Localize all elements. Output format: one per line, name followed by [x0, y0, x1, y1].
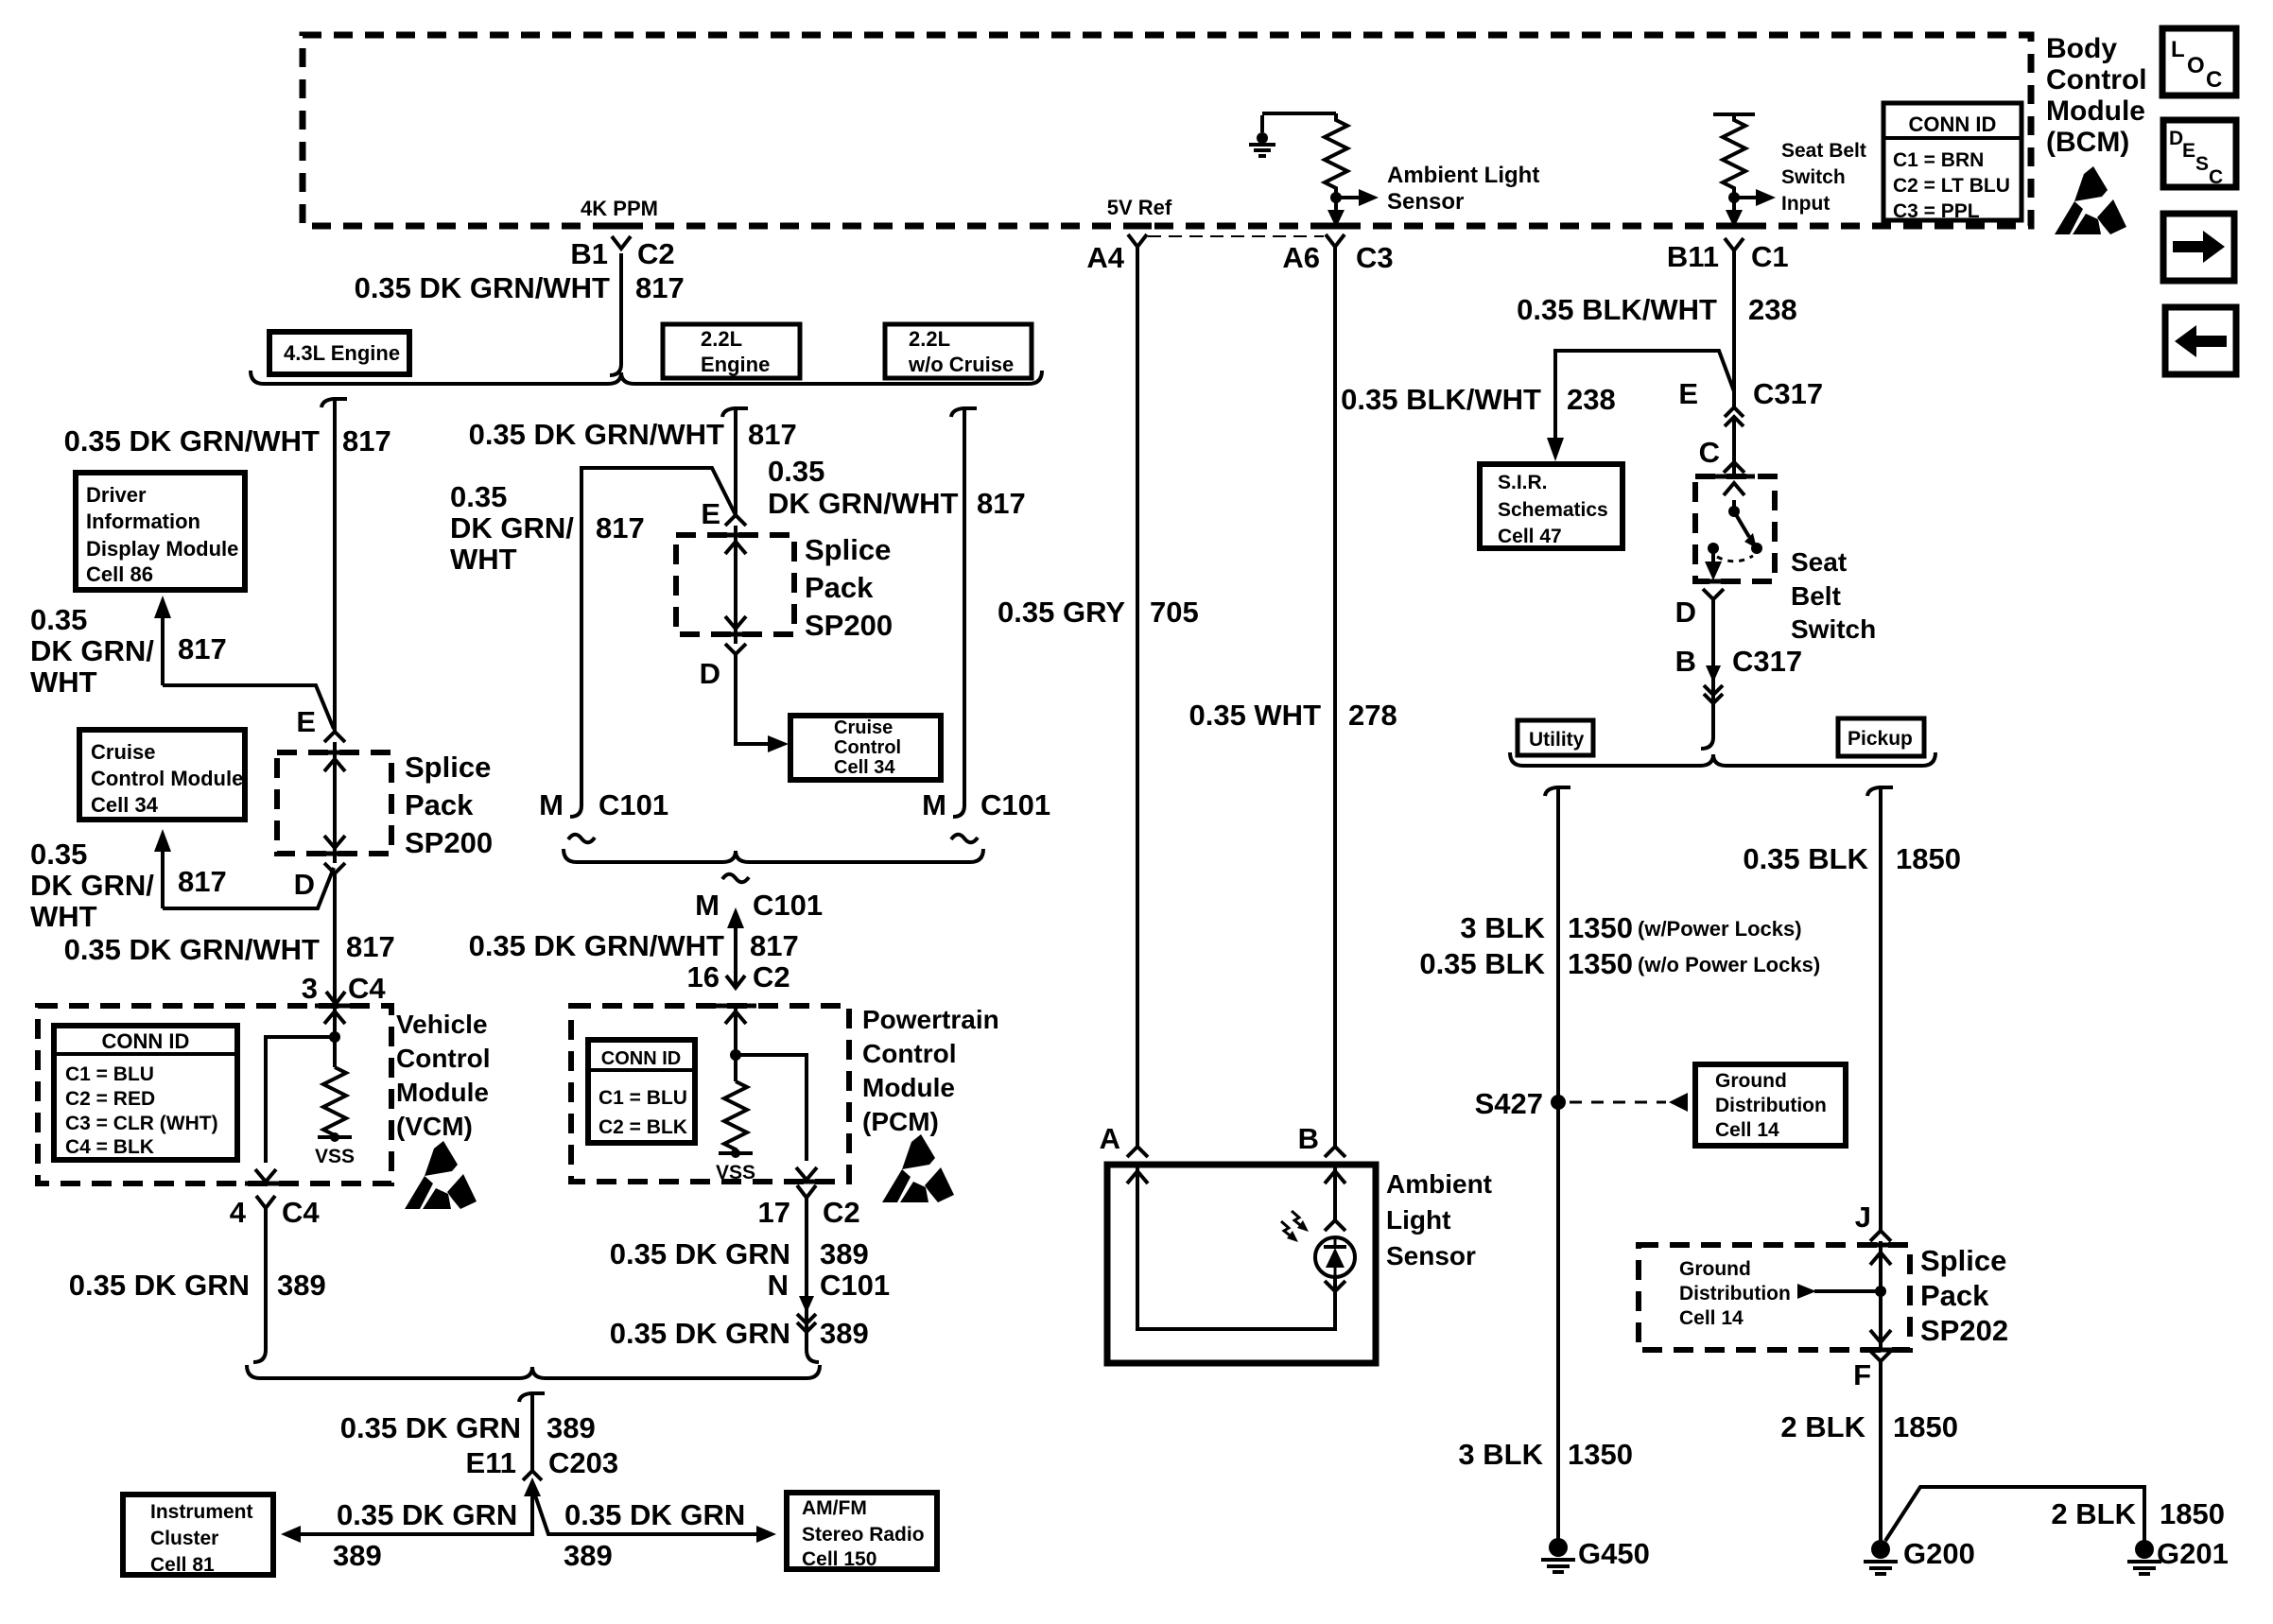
svg-text:G200: G200 [1903, 1537, 1975, 1570]
svg-text:0.35 DK GRN: 0.35 DK GRN [337, 1498, 517, 1531]
svg-text:2.2L: 2.2L [701, 327, 742, 351]
node S427 splice [1551, 1095, 1566, 1110]
wire 817 2.2L w/o Cruise hook [951, 408, 977, 417]
node junction inside PCM [730, 1049, 741, 1061]
connector pin A4 on BCM [1128, 234, 1147, 247]
table CONN ID (VCM) [54, 1026, 237, 1160]
svg-text:1350: 1350 [1568, 911, 1633, 944]
svg-text:SP200: SP200 [805, 609, 893, 642]
svg-text:J: J [1855, 1201, 1871, 1234]
svg-text:E: E [701, 497, 720, 530]
arrow Seat Belt Switch Input signal [1734, 196, 1756, 199]
svg-text:M: M [922, 788, 946, 821]
svg-text:D: D [294, 868, 315, 901]
svg-text:B: B [1675, 645, 1696, 678]
svg-text:Ambient: Ambient [1386, 1169, 1492, 1199]
arrow up inside SP200 [324, 759, 345, 771]
arrow down at switch pin D exit [1711, 552, 1715, 563]
svg-text:M: M [695, 889, 720, 922]
table CONN ID (BCM) [1883, 103, 2021, 220]
arrow up at VCM pin 3 entry [324, 1011, 345, 1024]
svg-text:0.35: 0.35 [450, 480, 507, 513]
svg-text:Cell 86: Cell 86 [86, 562, 153, 586]
arrow up at PCM pin 16 entry [725, 1011, 746, 1024]
svg-text:Module: Module [862, 1073, 955, 1102]
svg-text:1350: 1350 [1568, 1438, 1633, 1471]
svg-text:M: M [539, 788, 564, 821]
svg-text:C2: C2 [753, 960, 790, 993]
svg-text:Cruise: Cruise [834, 717, 893, 738]
svg-text:Vehicle: Vehicle [396, 1010, 488, 1039]
arrow up inside SP202 [1870, 1253, 1891, 1265]
connector pin E/C317 [1725, 407, 1744, 426]
wire to pin B11 with down arrow [1732, 198, 1736, 212]
switch SW1 Seat Belt Switch dashed box [1695, 476, 1775, 581]
wire 817 4.3L branch hook [321, 399, 347, 407]
net VSS (VCM) [318, 1135, 352, 1139]
module U3 Powertrain Control Module (PCM) dashed outline [571, 1006, 849, 1182]
arrow up inside SP200 (mid) [725, 542, 746, 554]
svg-text:A: A [1100, 1122, 1120, 1155]
connector M/C101 (left tilde) [568, 835, 595, 843]
brace engine application split [251, 371, 1042, 384]
svg-text:5V Ref: 5V Ref [1107, 196, 1172, 219]
svg-text:2.2L: 2.2L [909, 327, 950, 351]
svg-text:1850: 1850 [1896, 842, 1961, 875]
arrow up at sensor pin B [1325, 1171, 1345, 1183]
svg-text:C1 = BRN: C1 = BRN [1893, 149, 1984, 171]
ground G201 [2135, 1540, 2154, 1559]
svg-text:S: S [2195, 153, 2209, 175]
svg-text:389: 389 [564, 1539, 613, 1572]
svg-text:238: 238 [1748, 293, 1797, 326]
wire branch to Driver Information Display Module [163, 685, 334, 729]
svg-text:S427: S427 [1475, 1087, 1543, 1120]
tag box 2.2L w/o Cruise [885, 324, 1032, 378]
wire to pin A6 with down arrow [1334, 198, 1338, 212]
arrow up at sensor pin A [1127, 1171, 1148, 1183]
wire branch to S.I.R. Schematics [1555, 351, 1734, 440]
svg-text:(w/o Power Locks): (w/o Power Locks) [1638, 953, 1820, 976]
svg-text:817: 817 [342, 424, 391, 458]
svg-text:Seat Belt: Seat Belt [1781, 140, 1866, 162]
module box Cruise Control Cell 34 [790, 716, 941, 780]
wire 1850 Pickup hook [1867, 787, 1893, 796]
splice pack SP200 dashed box (mid) [676, 535, 794, 634]
svg-text:0.35 DK GRN: 0.35 DK GRN [564, 1498, 745, 1531]
svg-text:0.35 DK GRN: 0.35 DK GRN [610, 1317, 790, 1350]
connector N/C101 with arrow [799, 1296, 814, 1313]
svg-text:E: E [2182, 140, 2195, 162]
wire inside PCM [734, 1006, 737, 1081]
node junction inside VCM [329, 1031, 340, 1043]
svg-text:WHT: WHT [30, 900, 97, 933]
svg-text:Sensor: Sensor [1387, 189, 1464, 215]
svg-text:Cell 14: Cell 14 [1715, 1119, 1779, 1141]
wire hook above truck split [1701, 737, 1713, 749]
svg-text:817: 817 [748, 418, 797, 451]
switch lever with arrow [1734, 511, 1749, 537]
svg-text:WHT: WHT [30, 665, 97, 699]
svg-text:DK GRN/: DK GRN/ [30, 869, 154, 902]
svg-text:0.35 BLK/WHT: 0.35 BLK/WHT [1517, 293, 1717, 326]
switch pivot contact [1728, 506, 1740, 517]
svg-text:L: L [2171, 37, 2185, 62]
svg-text:389: 389 [333, 1539, 382, 1572]
connector pin B/C317 with arrow [1706, 665, 1721, 682]
svg-text:389: 389 [547, 1411, 596, 1444]
svg-text:DK GRN/: DK GRN/ [30, 634, 154, 667]
wire through splice pack SP202 [1879, 1241, 1883, 1351]
wire 389 splits to cluster and radio [286, 1494, 532, 1534]
arrow into S.I.R. Schematics box [1547, 438, 1564, 461]
connector pin 4/C4 on VCM [256, 1196, 275, 1208]
svg-text:0.35 DK GRN/WHT: 0.35 DK GRN/WHT [355, 271, 610, 304]
connector pin B (ambient light sensor) [1325, 1147, 1345, 1157]
svg-text:C2: C2 [637, 237, 675, 270]
svg-text:817: 817 [346, 930, 395, 963]
svg-text:C101: C101 [753, 889, 823, 922]
module box Ground Distribution Cell 14 [1695, 1064, 1846, 1146]
svg-text:C4: C4 [348, 972, 386, 1005]
svg-text:Stereo Radio: Stereo Radio [802, 1524, 925, 1546]
splice pack SP202 dashed box [1639, 1245, 1910, 1350]
svg-text:Splice: Splice [805, 533, 891, 566]
svg-text:2 BLK: 2 BLK [1780, 1410, 1865, 1443]
wire inside VCM [333, 1006, 337, 1067]
wire 817 2.2L w/o Cruise vertical [953, 408, 964, 817]
dashed reference line to Ground Distribution [1570, 1101, 1666, 1104]
svg-text:Pack: Pack [1920, 1279, 1989, 1312]
svg-text:Powertrain: Powertrain [862, 1005, 999, 1034]
svg-text:Control: Control [862, 1039, 957, 1068]
arrow into Cruise Control Cell 34 [768, 735, 789, 752]
switch contact (left) [1708, 543, 1719, 554]
svg-text:Display Module: Display Module [86, 537, 238, 561]
connector pin A6/C3 on BCM [1326, 234, 1345, 247]
arrow into Instrument Cluster [281, 1526, 301, 1543]
wire 817 2.2L branch vertical [734, 408, 737, 515]
svg-text:817: 817 [596, 511, 645, 544]
svg-text:3 BLK: 3 BLK [1460, 911, 1545, 944]
connector pin E (splice pack SP200 mid) [725, 515, 746, 526]
svg-text:Module: Module [396, 1078, 489, 1107]
svg-text:B1: B1 [570, 237, 608, 270]
wire 1850 branch to G201 [1885, 1487, 2144, 1541]
wire pin B to photodiode [1333, 1165, 1337, 1220]
svg-text:C3 = PPL: C3 = PPL [1893, 200, 1980, 222]
svg-text:D: D [2169, 128, 2183, 149]
svg-text:C: C [2209, 166, 2223, 188]
svg-text:Control: Control [396, 1044, 491, 1073]
svg-text:Module: Module [2046, 95, 2145, 127]
svg-text:Sensor: Sensor [1386, 1241, 1476, 1270]
svg-text:Engine: Engine [701, 353, 770, 376]
svg-text:DK GRN/: DK GRN/ [450, 511, 574, 544]
svg-text:Cell 150: Cell 150 [802, 1548, 876, 1570]
svg-text:C101: C101 [599, 788, 668, 821]
connector pin E (splice pack SP200) [324, 732, 345, 742]
svg-text:Splice: Splice [1920, 1244, 2006, 1277]
wire 817 to PCM with up arrow [734, 926, 737, 987]
svg-text:DK GRN/WHT: DK GRN/WHT [768, 487, 959, 520]
svg-text:Information: Information [86, 510, 200, 533]
svg-text:4: 4 [230, 1196, 247, 1229]
svg-text:C317: C317 [1732, 645, 1802, 678]
svg-text:Splice: Splice [405, 751, 491, 784]
node junction (seat belt switch input) [1728, 192, 1740, 203]
dashed connector line A4 to A6 [1148, 235, 1324, 237]
brace truck model split [1510, 752, 1935, 766]
module box Instrument Cluster Cell 81 [123, 1494, 273, 1575]
svg-text:C101: C101 [820, 1269, 890, 1302]
connector pin B11/C1 on BCM [1725, 238, 1744, 251]
svg-text:C2 = RED: C2 = RED [65, 1088, 155, 1110]
arrow down inside SP200 [324, 836, 345, 848]
svg-text:0.35: 0.35 [30, 838, 87, 871]
svg-text:C101: C101 [980, 788, 1050, 821]
svg-text:705: 705 [1150, 596, 1199, 629]
svg-text:0.35 BLK/WHT: 0.35 BLK/WHT [1341, 383, 1541, 416]
svg-text:2 BLK: 2 BLK [2051, 1497, 2136, 1530]
svg-text:VSS: VSS [315, 1146, 355, 1167]
svg-text:CONN ID: CONN ID [1909, 112, 1997, 136]
module U2 Vehicle Control Module (VCM) dashed outline [38, 1006, 391, 1183]
dashed travel arc [1717, 556, 1753, 561]
arrow Ambient Light Sensor signal [1336, 196, 1359, 199]
legend box DESC [2163, 120, 2236, 187]
resistor R1 (ambient light sensor pull-up) [1325, 113, 1347, 193]
wire 238 from BCM B11/C1 [1732, 251, 1736, 406]
node junction SP202 [1875, 1286, 1886, 1297]
net VSS (PCM) [719, 1151, 753, 1155]
svg-text:CONN ID: CONN ID [102, 1029, 190, 1053]
legend box previous arrow [2165, 307, 2236, 374]
svg-text:0.35 DK GRN: 0.35 DK GRN [340, 1411, 521, 1444]
arrow into AM/FM Stereo Radio [756, 1526, 776, 1543]
svg-text:Light: Light [1386, 1205, 1450, 1235]
svg-text:D: D [700, 657, 720, 690]
wire to Cruise Control arrow [736, 654, 768, 744]
ground G450 [1549, 1538, 1568, 1557]
svg-text:C203: C203 [548, 1446, 618, 1479]
svg-text:0.35 DK GRN/WHT: 0.35 DK GRN/WHT [64, 933, 320, 966]
svg-text:16: 16 [687, 960, 720, 993]
svg-text:Control: Control [2046, 64, 2147, 95]
svg-text:389: 389 [820, 1317, 869, 1350]
svg-text:3: 3 [302, 972, 318, 1005]
svg-text:0.35 WHT: 0.35 WHT [1189, 699, 1321, 732]
svg-text:Switch: Switch [1791, 614, 1876, 644]
svg-text:Input: Input [1781, 193, 1830, 215]
wire 1350 Utility vertical [1556, 787, 1560, 1541]
wire ground to resistor R1 [1262, 112, 1336, 115]
svg-text:389: 389 [277, 1269, 326, 1302]
svg-text:Cluster: Cluster [150, 1528, 218, 1549]
svg-text:Ambient Light: Ambient Light [1387, 163, 1539, 188]
wire sensor internal loop [1137, 1165, 1335, 1329]
wire C317 to seat belt switch [1732, 417, 1736, 479]
svg-text:Driver: Driver [86, 483, 147, 507]
svg-text:WHT: WHT [450, 543, 517, 576]
svg-text:0.35 BLK: 0.35 BLK [1419, 947, 1545, 980]
svg-text:817: 817 [178, 865, 227, 898]
svg-text:C3 = CLR (WHT): C3 = CLR (WHT) [65, 1113, 218, 1134]
svg-text:G201: G201 [2157, 1537, 2229, 1570]
svg-text:1350: 1350 [1568, 947, 1633, 980]
brace VSS signal join [247, 1365, 820, 1378]
connector pin D (splice pack SP200 mid) [725, 644, 746, 654]
svg-text:0.35: 0.35 [30, 603, 87, 636]
svg-text:0.35 DK GRN: 0.35 DK GRN [69, 1269, 250, 1302]
svg-text:VSS: VSS [716, 1162, 755, 1183]
svg-text:0.35: 0.35 [768, 455, 824, 488]
svg-text:Instrument: Instrument [150, 1501, 253, 1523]
wire seat belt input top bar [1713, 112, 1755, 116]
svg-text:C1 = BLU: C1 = BLU [599, 1087, 687, 1109]
node junction (ambient light sensor output) [1330, 192, 1342, 203]
svg-text:0.35 BLK: 0.35 BLK [1743, 842, 1868, 875]
arrow down inside SP202 [1870, 1330, 1891, 1342]
svg-text:Utility: Utility [1529, 729, 1585, 751]
svg-text:B11: B11 [1667, 240, 1719, 273]
connector pin E11/C203 [523, 1471, 542, 1480]
connector M/C101 (right tilde) [951, 835, 978, 843]
svg-text:0.35 DK GRN/WHT: 0.35 DK GRN/WHT [64, 424, 320, 458]
connector chevron above photodiode [1325, 1220, 1345, 1231]
arrow down inside SP200 (mid) [725, 616, 746, 629]
legend box LOC [2162, 28, 2236, 95]
arrow up at switch pin C entry [1724, 483, 1744, 495]
module box S.I.R. Schematics Cell 47 [1480, 464, 1622, 548]
svg-text:4.3L Engine: 4.3L Engine [284, 341, 400, 365]
svg-text:Cell 14: Cell 14 [1679, 1307, 1744, 1329]
svg-text:C3: C3 [1356, 241, 1394, 274]
svg-text:E: E [1678, 377, 1698, 410]
resistor R3 (VCM VSS) [323, 1067, 346, 1137]
connector pin J (splice pack SP202) [1870, 1231, 1891, 1241]
brace C101 join [564, 849, 983, 862]
svg-text:Belt: Belt [1791, 581, 1841, 611]
wire 817 4.3L branch vertical [333, 399, 337, 732]
module box Cruise Control Module Cell 34 [79, 730, 245, 820]
svg-text:817: 817 [750, 929, 799, 962]
svg-text:A6: A6 [1282, 241, 1320, 274]
wire 278 A6 to sensor [1333, 248, 1337, 1147]
arrow reference into SP202 junction [1797, 1284, 1816, 1299]
wire 389 from PCM pin 17 [807, 1197, 819, 1362]
connector pin D (splice pack SP200) [324, 863, 345, 873]
wire 1350 Utility hook [1545, 787, 1570, 796]
svg-text:Schematics: Schematics [1498, 499, 1608, 521]
svg-text:C: C [2206, 67, 2222, 93]
module box Ambient Light Sensor [1107, 1165, 1376, 1363]
connector pin 3/C4 on VCM [326, 992, 345, 1004]
svg-text:0.35 GRY: 0.35 GRY [998, 596, 1125, 629]
svg-text:817: 817 [977, 487, 1026, 520]
svg-text:Distribution: Distribution [1679, 1283, 1791, 1304]
wire 817 from BCM B1/C2 [610, 253, 621, 375]
svg-text:Distribution: Distribution [1715, 1095, 1827, 1116]
tag box 2.2L Engine [663, 324, 800, 378]
wire 817 down to VCM [333, 873, 337, 1006]
svg-text:C: C [1699, 436, 1720, 469]
ESD sensitive symbol (VCM) [405, 1141, 477, 1209]
ground G200 [1871, 1540, 1890, 1559]
tag box 4.3L Engine [269, 332, 409, 374]
svg-text:SP202: SP202 [1920, 1314, 2008, 1347]
svg-text:817: 817 [635, 271, 685, 304]
ESD sensitive symbol (PCM) [882, 1134, 954, 1202]
svg-text:w/o Cruise: w/o Cruise [908, 353, 1014, 376]
svg-text:C2 = LT BLU: C2 = LT BLU [1893, 175, 2010, 197]
svg-text:0.35 DK GRN/WHT: 0.35 DK GRN/WHT [469, 929, 724, 962]
svg-text:Cell 81: Cell 81 [150, 1554, 215, 1576]
arrow down at VCM pin 4 exit [255, 1169, 276, 1182]
svg-text:Body: Body [2046, 33, 2117, 64]
connector pin F (splice pack SP202) [1870, 1351, 1891, 1361]
svg-text:O: O [2187, 53, 2205, 78]
wire branch to PCM pin 17 [736, 1055, 807, 1161]
svg-text:SP200: SP200 [405, 826, 493, 859]
svg-text:G450: G450 [1578, 1537, 1650, 1570]
svg-text:817: 817 [178, 632, 227, 665]
svg-text:Switch: Switch [1781, 166, 1846, 188]
connector chevron below photodiode [1325, 1281, 1345, 1291]
ground G (ambient light sensor divider) [1260, 115, 1264, 132]
svg-text:A4: A4 [1086, 241, 1124, 274]
svg-text:1850: 1850 [2160, 1497, 2225, 1530]
wire branch to VCM pin 4 [266, 1037, 335, 1163]
splice pack SP200 dashed box [277, 752, 391, 854]
ESD sensitive symbol (BCM) [2055, 166, 2126, 234]
photodiode D1 [1315, 1237, 1355, 1277]
connector pin 16/C2 on PCM [726, 976, 745, 988]
connector M/C101 (center tilde) [722, 874, 749, 883]
resistor R4 (PCM VSS) [724, 1081, 747, 1153]
table CONN ID (PCM) [588, 1040, 695, 1143]
svg-text:C1 = BLU: C1 = BLU [65, 1063, 154, 1085]
svg-text:B: B [1298, 1122, 1319, 1155]
wire 705 A4 to sensor [1136, 248, 1139, 1147]
svg-text:AM/FM: AM/FM [802, 1497, 867, 1519]
photon arrows into photodiode [1292, 1211, 1304, 1228]
svg-text:Cell 34: Cell 34 [91, 793, 159, 817]
svg-text:C317: C317 [1753, 377, 1823, 410]
svg-text:D: D [1675, 596, 1696, 629]
arrow into Cruise Control Module [161, 850, 165, 908]
connector pin B1/C2 on BCM [612, 236, 631, 249]
wire through splice pack SP200 [333, 742, 337, 863]
svg-text:E11: E11 [466, 1446, 516, 1479]
svg-text:Ground: Ground [1679, 1258, 1751, 1280]
wire branch to Cruise Control Module [163, 868, 334, 908]
arrow reference Ground Distribution [1669, 1093, 1688, 1112]
arrow up below E11/C203 [524, 1477, 541, 1496]
svg-text:F: F [1853, 1358, 1871, 1391]
svg-text:E: E [296, 705, 316, 738]
wire 1850 Pickup vertical [1879, 787, 1883, 1231]
wire 389 common below brace [519, 1393, 545, 1471]
svg-text:C1: C1 [1751, 240, 1789, 273]
module box AM/FM Stereo Radio Cell 150 [787, 1493, 937, 1569]
svg-text:Pack: Pack [405, 788, 474, 821]
wire to switch pivot [1732, 500, 1736, 510]
svg-text:Pickup: Pickup [1848, 728, 1913, 750]
svg-text:0.35 DK GRN: 0.35 DK GRN [610, 1237, 790, 1270]
svg-text:4K PPM: 4K PPM [581, 197, 658, 220]
connector pin A (ambient light sensor) [1127, 1147, 1148, 1157]
